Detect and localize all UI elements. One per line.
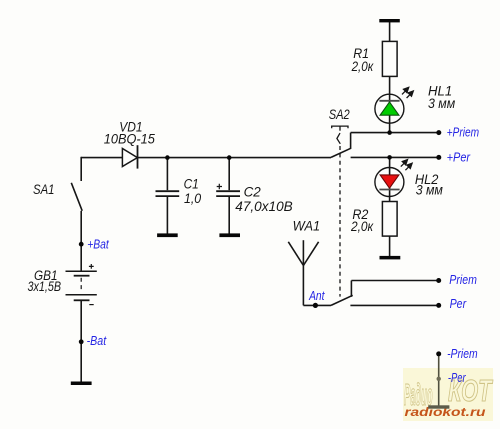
svg-text:-Per: -Per (448, 371, 466, 385)
svg-text:WA1: WA1 (293, 219, 321, 234)
svg-text:2,0к: 2,0к (351, 59, 374, 74)
svg-text:3 мм: 3 мм (416, 182, 443, 197)
svg-text:3x1,5В: 3x1,5В (28, 279, 62, 294)
svg-text:+Per: +Per (447, 151, 471, 165)
svg-text:+Priem: +Priem (447, 126, 480, 140)
svg-text:3 мм: 3 мм (428, 96, 455, 111)
svg-text:-Bat: -Bat (87, 334, 107, 348)
svg-text:radiokot.ru: radiokot.ru (405, 407, 486, 419)
svg-text:SA2: SA2 (329, 107, 350, 122)
svg-text:47,0x10В: 47,0x10В (235, 199, 292, 214)
svg-text:Per: Per (450, 297, 467, 311)
svg-text:2,0к: 2,0к (350, 219, 374, 234)
svg-text:+Bat: +Bat (87, 238, 109, 252)
svg-text:1,0: 1,0 (184, 191, 202, 206)
svg-text:-Priem: -Priem (447, 347, 478, 361)
svg-text:Ant: Ant (308, 289, 325, 303)
svg-text:SA1: SA1 (33, 182, 55, 197)
svg-text:C2: C2 (244, 184, 262, 199)
svg-text:Priem: Priem (449, 273, 477, 287)
svg-text:C1: C1 (184, 176, 199, 191)
svg-text:10BQ-15: 10BQ-15 (104, 132, 156, 147)
